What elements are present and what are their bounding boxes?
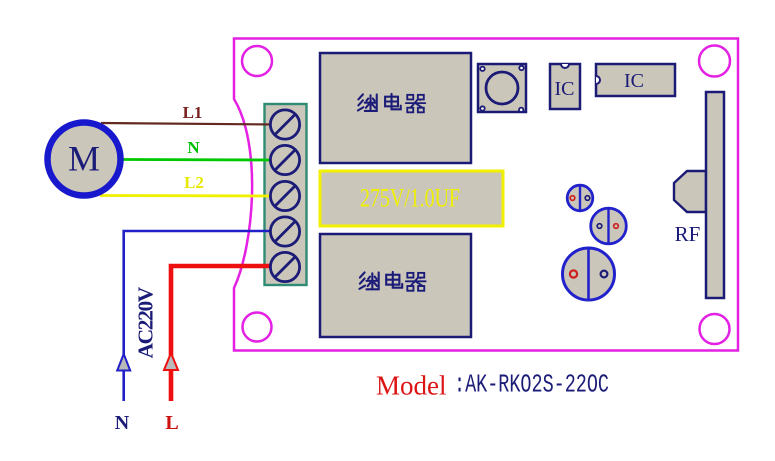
mounting hole top-left (242, 46, 272, 76)
RF module bar (706, 92, 724, 298)
svg-text::AK-RKO2S-22OC: :AK-RKO2S-22OC (454, 371, 609, 400)
terminal screw 3 (270, 181, 299, 210)
svg-text:RF: RF (675, 222, 701, 246)
capacitor C2 (small) (567, 185, 593, 211)
svg-text:N: N (115, 412, 130, 434)
svg-text:M: M (68, 139, 100, 179)
terminal screw 2 (270, 145, 299, 174)
svg-text:L2: L2 (184, 173, 204, 192)
pushbutton S1 (478, 64, 526, 112)
wire N input (terminal 4 down to arrow N) (124, 231, 276, 401)
terminal block J1 (265, 104, 307, 285)
wire N (motor to terminal 2) (124, 158, 277, 161)
PCB board outline (234, 39, 738, 351)
wire L2 (motor to terminal 3) (100, 194, 276, 197)
mounting hole bottom-left (243, 313, 272, 342)
IC U1 (550, 64, 580, 109)
relay K2 label 继电器 (359, 272, 425, 291)
motor M (48, 123, 121, 196)
svg-text:Model: Model (376, 370, 447, 400)
wire L input (terminal 5 down to arrow L) (171, 266, 276, 401)
IC U2 (596, 64, 675, 96)
mounting hole bottom-right (700, 314, 730, 344)
arrow L (red) (164, 353, 178, 370)
svg-text:N: N (187, 138, 200, 157)
mounting hole top-right (699, 46, 730, 77)
relay K1 label 继电器 (358, 94, 425, 112)
svg-text:IC: IC (555, 78, 575, 100)
terminal screw 4 (270, 217, 299, 246)
svg-text:275V/1.0UF: 275V/1.0UF (360, 184, 460, 213)
capacitor C3 (medium) (591, 208, 627, 244)
svg-text:IC: IC (624, 70, 644, 92)
svg-text:AC220V: AC220V (134, 286, 158, 358)
relay K1 box (320, 53, 471, 163)
capacitor C4 (large) (563, 248, 615, 300)
arrow N (blue) (117, 354, 130, 371)
svg-text:L: L (165, 412, 178, 434)
wire L1 (motor to terminal 1) (101, 123, 276, 125)
terminal screw 5 (270, 252, 299, 281)
capacitor C1 box (320, 171, 503, 226)
svg-text:L1: L1 (183, 103, 203, 122)
terminal screw 1 (270, 110, 299, 139)
RF antenna connector (674, 171, 706, 212)
relay K2 box (320, 234, 471, 337)
